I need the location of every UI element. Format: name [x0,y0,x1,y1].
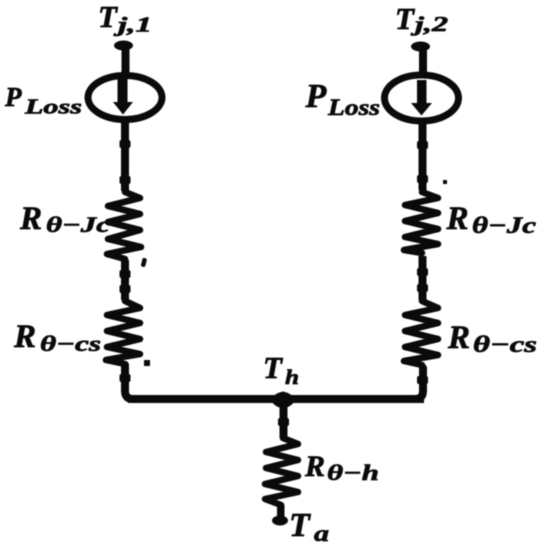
label P_LOSS (left) [4,82,82,119]
wire from node T_h to R_theta-h [278,402,289,438]
wire from T_j,2 node to current source (right) [419,46,427,76]
current source U2 P_LOSS (right) [385,75,459,121]
stray dot right of wire (right branch) [443,180,447,184]
label R_theta-cs (right) [447,320,537,357]
wire from R_theta-cs down to bus (right corner) [400,368,423,399]
svg-text:R: R [19,201,42,237]
svg-text:θ−h: θ−h [327,460,379,485]
label P_LOSS (right) [305,78,381,120]
wire horizontal bus to node T_h [128,395,424,403]
svg-text:T: T [395,1,415,36]
svg-text:θ−cs: θ−cs [473,332,537,357]
svg-text:R: R [13,319,36,355]
resistor R_theta-cs (left) [106,301,140,364]
svg-text:T: T [289,507,311,544]
svg-text:θ−Jc: θ−Jc [472,213,536,238]
svg-text:Loss: Loss [327,95,380,120]
svg-text:T: T [263,350,283,385]
svg-text:h: h [285,365,299,389]
wire from R_theta-JC to R_theta-cs (right) [417,256,428,300]
current source U1 P_LOSS (left) [88,76,162,120]
label R_theta-cs (left) [13,319,101,356]
svg-text:Loss: Loss [24,95,82,119]
resistor R_theta-h [265,438,298,505]
wire from R_theta-JC to R_theta-cs (left) [120,260,131,300]
current source arrow (right) [411,80,432,116]
label T_j,1 [98,0,152,37]
label T_h [263,350,299,389]
current source arrow (left) [113,79,133,115]
wire from T_j,1 node to current source (left) [122,45,130,76]
svg-text:θ−cs: θ−cs [40,331,101,356]
wire from current source to R_theta-JC (right) [417,121,428,190]
svg-text:a: a [314,521,329,546]
label T_a [289,507,329,546]
svg-text:P: P [4,82,22,112]
svg-text:T: T [98,0,118,34]
svg-text:θ−Jc: θ−Jc [46,212,110,237]
stray dot right of R_theta-cs (left) [144,360,150,366]
label R_theta-h [304,450,379,485]
resistor R_theta-cs (right) [404,301,438,365]
node T_a terminal dot [272,505,288,526]
svg-text:R: R [447,320,470,356]
resistor R_theta-JC (right) [404,192,438,253]
resistor R_theta-JC (left) [107,192,141,259]
svg-text:R: R [446,201,469,237]
svg-text:P: P [305,78,327,115]
svg-text:j,2: j,2 [410,12,448,36]
label T_j,2 [395,1,449,36]
stray tick mark right of R_theta-JC (left) [141,258,148,268]
node T_j,1 terminal dot [114,41,133,51]
label R_theta-JC (left) [19,201,110,237]
junction node T_h [271,392,295,409]
svg-text:j,1: j,1 [113,13,152,37]
node T_j,2 terminal dot [411,42,430,52]
svg-text:R: R [304,450,325,483]
label R_theta-JC (right) [446,201,537,238]
wire from R_theta-cs down to bus (left corner) [125,365,150,399]
wire from current source to R_theta-JC (left) [120,119,131,191]
